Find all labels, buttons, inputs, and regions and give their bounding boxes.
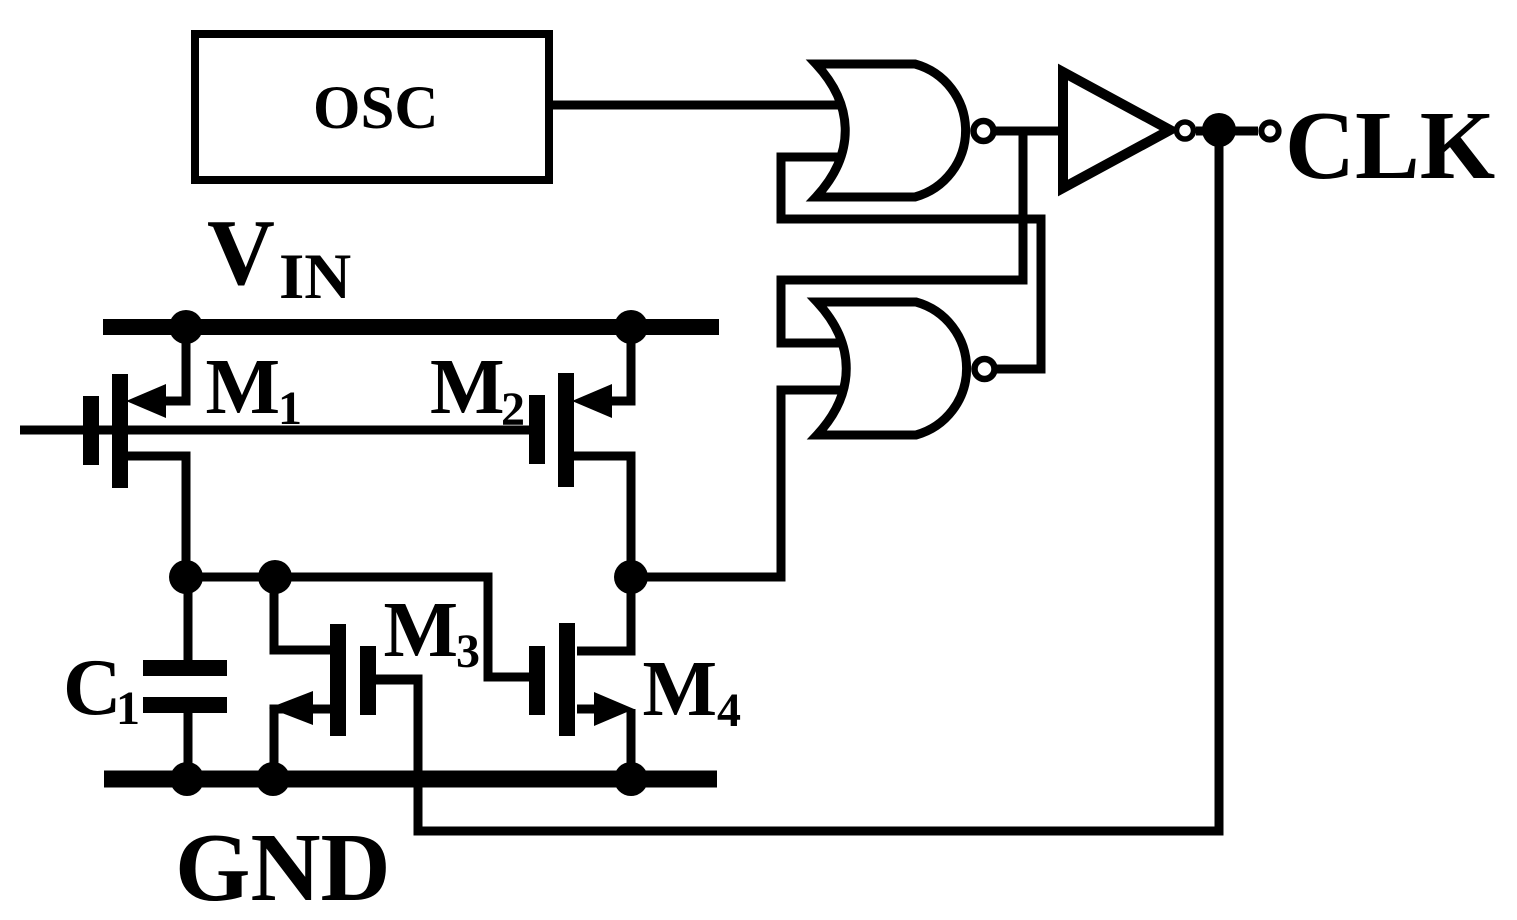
svg-text:M: M: [430, 344, 505, 431]
svg-text:IN: IN: [279, 241, 351, 313]
svg-text:1: 1: [278, 382, 302, 435]
svg-text:4: 4: [717, 684, 741, 737]
svg-text:V: V: [207, 201, 275, 305]
svg-text:C: C: [63, 642, 122, 732]
svg-text:GND: GND: [175, 814, 391, 920]
svg-text:M: M: [384, 587, 459, 674]
svg-text:M: M: [206, 344, 281, 431]
svg-text:OSC: OSC: [313, 75, 438, 142]
svg-text:1: 1: [116, 682, 140, 735]
svg-text:CLK: CLK: [1285, 92, 1495, 199]
svg-text:M: M: [643, 646, 718, 733]
svg-text:3: 3: [456, 625, 480, 678]
svg-text:2: 2: [501, 383, 525, 436]
